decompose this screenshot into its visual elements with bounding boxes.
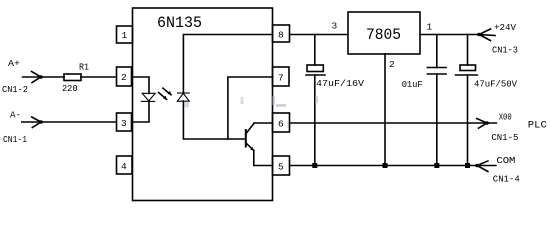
photodiode D2 xyxy=(177,93,189,101)
terminal arrow X00 xyxy=(477,119,489,129)
wire R1 to pin2 xyxy=(81,76,117,78)
pin 8 box xyxy=(273,25,290,42)
wire A+ to R1 xyxy=(23,76,64,78)
capacitor C3 47uF/50V xyxy=(456,35,478,166)
svg-text:7805: 7805 xyxy=(366,26,401,44)
svg-text:6N135: 6N135 xyxy=(157,14,202,32)
pin 3 box xyxy=(117,113,132,131)
svg-text:220: 220 xyxy=(62,83,78,94)
svg-text:7: 7 xyxy=(278,73,284,84)
svg-text:47uF/16V: 47uF/16V xyxy=(316,78,364,89)
junction dot C1 xyxy=(312,163,317,168)
regulator U2 7805 xyxy=(348,12,420,54)
svg-text:47uF/50V: 47uF/50V xyxy=(474,79,517,90)
wire photodiode to base xyxy=(183,101,245,139)
svg-text:CN1-5: CN1-5 xyxy=(491,132,518,143)
svg-text:PLC: PLC xyxy=(528,120,547,132)
junction dot 7805 gnd xyxy=(383,163,388,168)
wire pin8 to photodiode xyxy=(183,35,272,94)
pin 5 box xyxy=(273,156,290,175)
svg-text:X00: X00 xyxy=(499,112,512,123)
terminal arrow COM xyxy=(475,161,488,172)
svg-text:CN1-1: CN1-1 xyxy=(3,134,27,145)
svg-text:A-: A- xyxy=(10,110,21,121)
watermark smudges xyxy=(184,96,318,108)
svg-text:CN1-3: CN1-3 xyxy=(492,45,518,56)
wire pin2 into IC xyxy=(132,77,150,94)
wire emitter to pin5 xyxy=(254,151,273,166)
pin 1 box xyxy=(117,26,133,43)
svg-text:+24V: +24V xyxy=(494,22,516,33)
svg-text:1: 1 xyxy=(122,30,128,41)
light arrow 1 xyxy=(163,88,172,95)
LED D1 emitter diode xyxy=(141,93,155,101)
svg-text:2: 2 xyxy=(121,72,127,83)
resistor R1 xyxy=(64,74,81,81)
svg-text:3: 3 xyxy=(121,118,127,129)
junction dot C3 xyxy=(465,163,470,168)
pin 6 box xyxy=(273,113,290,132)
capacitor C1 47uF/16V xyxy=(306,35,325,166)
pin 4 box xyxy=(117,156,133,174)
wire 7805 output xyxy=(420,34,479,36)
transistor Q1 xyxy=(246,124,254,151)
terminal arrow +24V xyxy=(477,29,495,41)
svg-text:CN1-4: CN1-4 xyxy=(493,174,520,185)
svg-text:COM: COM xyxy=(496,155,515,166)
op-to IC 6N135 body xyxy=(133,8,273,201)
svg-text:01uF: 01uF xyxy=(402,79,423,90)
wire X00 line xyxy=(290,122,497,124)
light arrow 2 xyxy=(159,93,168,101)
svg-text:A+: A+ xyxy=(8,58,20,69)
pin 2 box xyxy=(117,67,132,86)
wire A- to pin3 xyxy=(22,121,117,123)
capacitor C2 01uF xyxy=(427,35,446,166)
svg-text:R1: R1 xyxy=(79,62,89,73)
svg-text:1: 1 xyxy=(427,22,433,33)
svg-text:5: 5 xyxy=(278,162,284,173)
wire COM line xyxy=(290,165,496,167)
svg-text:3: 3 xyxy=(332,21,338,32)
svg-text:8: 8 xyxy=(278,30,284,41)
pin 7 box xyxy=(273,67,290,86)
terminal arrow A- xyxy=(32,117,43,128)
svg-text:6: 6 xyxy=(278,119,284,130)
wire 7805 ground pin2 xyxy=(384,54,386,166)
svg-text:2: 2 xyxy=(389,59,395,70)
wire pin7 drop xyxy=(228,77,273,139)
svg-text:4: 4 xyxy=(121,161,127,172)
wire pin8 to 7805 input xyxy=(290,34,349,36)
wire LED cathode to pin3 xyxy=(132,101,150,122)
terminal arrow A+ xyxy=(32,72,43,83)
wire collector to pin6 xyxy=(254,122,273,125)
junction dot C2 xyxy=(434,163,439,168)
svg-text:CN1-2: CN1-2 xyxy=(2,84,28,95)
